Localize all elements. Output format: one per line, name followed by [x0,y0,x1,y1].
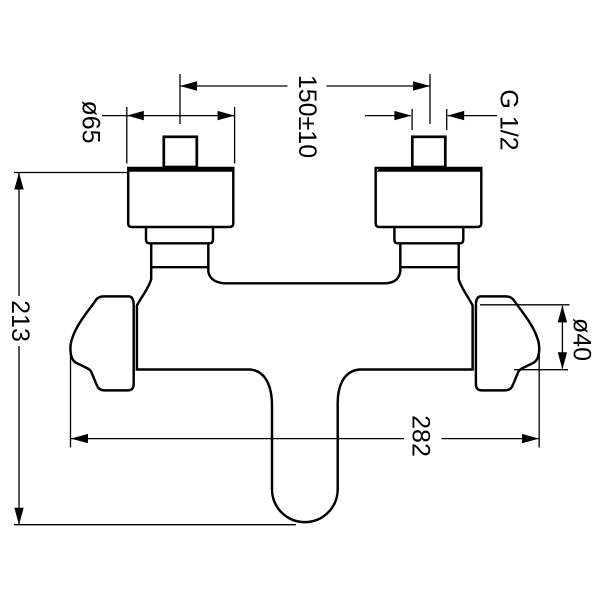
svg-text:G 1/2: G 1/2 [495,89,523,150]
svg-text:ø65: ø65 [77,100,105,143]
svg-text:282: 282 [407,415,435,457]
svg-text:ø40: ø40 [568,318,596,361]
svg-text:150±10: 150±10 [293,75,321,158]
svg-text:213: 213 [6,300,34,342]
